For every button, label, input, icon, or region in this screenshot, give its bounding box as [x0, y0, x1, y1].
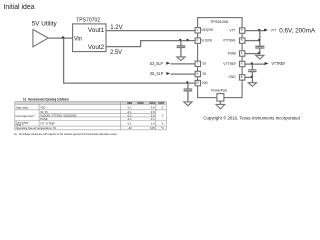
svg-text:0.1: 0.1: [151, 117, 155, 121]
svg-text:PGND: PGND: [228, 51, 237, 55]
svg-text:5V Utility: 5V Utility: [32, 21, 58, 28]
svg-text:Vout2: Vout2: [88, 44, 105, 51]
svg-text:TPS70702: TPS70702: [76, 17, 100, 23]
svg-text:1.2V: 1.2V: [110, 24, 123, 31]
svg-text:GND: GND: [229, 75, 236, 79]
svg-text:VTT, VTTREF: VTT, VTTREF: [40, 122, 55, 126]
svg-text:MAX: MAX: [150, 101, 156, 105]
svg-text:S3_SLP: S3_SLP: [150, 61, 163, 66]
svg-text:PowerPad: PowerPad: [211, 87, 226, 92]
svg-text:10: 10: [196, 81, 200, 85]
svg-text:-0.1: -0.1: [127, 117, 132, 121]
svg-text:VTTREF: VTTREF: [272, 61, 286, 66]
svg-text:UNIT: UNIT: [158, 101, 164, 105]
svg-text:2.0: 2.0: [151, 122, 155, 126]
svg-text:PGND: PGND: [40, 117, 47, 121]
svg-text:(1) All voltage values are w: (1) All voltage values are with respect …: [14, 132, 118, 136]
svg-text:0.6V, 200mA: 0.6V, 200mA: [279, 27, 315, 34]
svg-text:VDD: VDD: [202, 81, 208, 85]
svg-text:S5: S5: [203, 72, 206, 76]
svg-text:-40: -40: [128, 126, 132, 130]
svg-text:Operating free-air temperature: Operating free-air temperature, TA: [16, 126, 57, 130]
svg-text:Vout1: Vout1: [88, 27, 105, 34]
svg-text:°C: °C: [161, 126, 164, 130]
svg-text:S3: S3: [203, 62, 206, 66]
svg-text:V: V: [162, 122, 164, 126]
svg-text:Initial idea: Initial idea: [4, 4, 35, 11]
svg-text:V: V: [162, 114, 164, 118]
svg-text:VLDOIN: VLDOIN: [201, 38, 212, 42]
svg-text:VTT: VTT: [230, 28, 237, 32]
svg-text:VTT: VTT: [271, 28, 277, 32]
svg-text:Copyright © 2016, Texas Instru: Copyright © 2016, Texas Instruments Inco…: [203, 116, 300, 121]
svg-text:6.3 Recommended Operating Co: 6.3 Recommended Operating Conditions: [23, 97, 69, 101]
svg-text:VTTSNS: VTTSNS: [223, 38, 236, 42]
svg-text:Supply voltage: Supply voltage: [16, 106, 29, 110]
svg-text:TPS51206: TPS51206: [210, 19, 228, 24]
svg-text:105: 105: [150, 126, 155, 130]
svg-text:MIN: MIN: [127, 101, 132, 105]
svg-text:V: V: [162, 106, 164, 110]
svg-text:VTTREF: VTTREF: [223, 62, 237, 66]
svg-text:VDDQSNS: VDDQSNS: [201, 28, 213, 32]
svg-text:-0.1: -0.1: [127, 122, 132, 126]
svg-text:Input voltage range (1): Input voltage range (1): [16, 114, 36, 118]
svg-text:Vin: Vin: [74, 35, 82, 42]
svg-text:NOM: NOM: [137, 101, 143, 105]
svg-text:2.5V: 2.5V: [110, 49, 122, 56]
svg-text:S5_SLP: S5_SLP: [150, 71, 163, 76]
